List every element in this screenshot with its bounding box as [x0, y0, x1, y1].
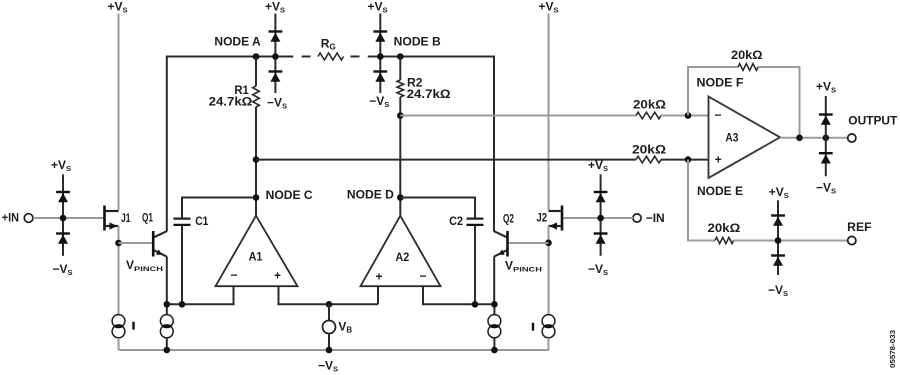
- 20k value label (feedback): [731, 48, 763, 62]
- diode D6 -VS to +IN: [56, 234, 70, 244]
- junction -IN clamp: [597, 215, 604, 222]
- svg-text:J2: J2: [537, 211, 548, 225]
- wire C2 bottom to A2 input rail: [474, 226, 476, 305]
- I label (right tail): [532, 323, 534, 331]
- node B label: [394, 34, 441, 48]
- resistor 20k (feedback): [738, 64, 758, 71]
- junction node D: [397, 194, 404, 201]
- supply -VS label (node A clamp): [267, 96, 287, 111]
- capacitor C2: [467, 219, 484, 225]
- VPINCH label (Q2): [505, 259, 542, 274]
- resistor R2 column wire upper: [399, 57, 401, 81]
- junction I2 at -VS rail: [164, 347, 171, 354]
- node D label: [347, 187, 394, 201]
- svg-text:NODE E: NODE E: [697, 184, 743, 198]
- supply +VS label (output clamp): [816, 80, 836, 95]
- wire node A horizontal run: [167, 57, 293, 232]
- +IN terminal label: [2, 211, 19, 225]
- OUTPUT terminal label: [848, 114, 898, 128]
- svg-text:−: −: [419, 269, 426, 283]
- voltage source VB: [323, 304, 336, 350]
- svg-text:REF: REF: [847, 220, 871, 234]
- svg-text:NODE B: NODE B: [394, 34, 441, 48]
- diode D5 +IN to +VS: [56, 192, 70, 202]
- resistor R1 column wire upper: [255, 57, 257, 87]
- junction I3 at -VS rail: [491, 347, 498, 354]
- node F label: [697, 76, 744, 90]
- transistor J2 (input JFET): [549, 206, 563, 231]
- node C label: [266, 188, 313, 202]
- svg-text:20kΩ: 20kΩ: [632, 142, 666, 156]
- terminal OUTPUT: [848, 134, 856, 142]
- svg-text:NODE C: NODE C: [266, 188, 313, 202]
- svg-text:C2: C2: [449, 214, 463, 228]
- op-amp A3: [709, 97, 781, 179]
- diode D9 output to +VS: [819, 115, 833, 125]
- resistor R2: [397, 80, 404, 97]
- svg-text:A3: A3: [725, 131, 738, 145]
- svg-text:+: +: [375, 270, 382, 284]
- junction Q2 emitter at rail: [491, 301, 498, 308]
- op-amp A1: [216, 216, 298, 287]
- svg-text:+: +: [274, 269, 281, 283]
- wire A1 inverting input stub: [167, 286, 234, 304]
- R1 value 24.7k label: [209, 95, 253, 109]
- junction output clamp: [823, 135, 830, 142]
- transistor J1 (input JFET): [105, 206, 119, 231]
- junction A3 noninverting input / ref divider: [685, 156, 692, 163]
- J2 label: [537, 211, 548, 225]
- junction node A clamp: [272, 53, 279, 60]
- resistor 20k (A3 noninverting input): [636, 156, 661, 163]
- transistor Q2: [494, 231, 508, 257]
- svg-text:J1: J1: [121, 211, 131, 225]
- junction J2 source / Q2 base: [545, 240, 552, 247]
- diode D3 node B to +VS: [373, 32, 387, 42]
- svg-text:OUTPUT: OUTPUT: [848, 114, 898, 128]
- svg-text:24.7kΩ: 24.7kΩ: [209, 95, 253, 109]
- wire C1 bottom to A1 input rail: [181, 226, 183, 305]
- svg-text:C1: C1: [195, 214, 208, 228]
- svg-text:Q2: Q2: [503, 212, 514, 226]
- VPINCH label (Q1): [126, 258, 163, 273]
- wire J1 tail to -VS rail: [118, 338, 120, 350]
- svg-text:Q1: Q1: [142, 211, 153, 225]
- resistor 20k (A3 inverting input): [636, 112, 661, 119]
- wire node A clamp string: [274, 14, 276, 94]
- wire Q2 emitter down: [493, 257, 495, 305]
- diode D12 -VS to REF: [771, 256, 785, 266]
- wire node C to C1: [182, 198, 255, 219]
- current source I3 (Q2 tail): [488, 304, 501, 350]
- wire ref resistor to REF terminal: [734, 240, 848, 242]
- REF terminal label: [847, 220, 871, 234]
- junction R2 tap to A3 negative input: [397, 112, 404, 119]
- svg-text:−: −: [714, 108, 721, 122]
- supply -VS label (output clamp): [816, 181, 836, 196]
- junction VB at bias rail: [326, 301, 333, 308]
- supply +VS label (-IN clamp): [588, 158, 608, 173]
- supply +VS label (REF clamp): [769, 185, 789, 200]
- svg-text:+: +: [715, 152, 722, 166]
- wire node B clamp string: [379, 14, 381, 94]
- wire 20k to A3 inverting input: [661, 115, 709, 117]
- junction C2 at rail: [472, 301, 479, 308]
- supply -VS label (REF clamp): [768, 283, 788, 298]
- C1 label: [195, 214, 208, 228]
- junction +IN clamp: [60, 215, 67, 222]
- transistor Q1: [153, 231, 167, 257]
- junction node B clamp: [377, 53, 384, 60]
- wire node D to C2: [401, 198, 475, 219]
- R2 label: [407, 75, 423, 89]
- wire A2 noninverting input stub: [377, 286, 379, 304]
- wire R2 tap to A3 inverting input: [400, 115, 636, 117]
- wire R1 to node C: [255, 107, 257, 216]
- svg-text:20kΩ: 20kΩ: [731, 48, 763, 62]
- current source I4 (J2 tail): [542, 315, 555, 338]
- wire RG gap dash left: [302, 56, 311, 58]
- svg-text:NODE A: NODE A: [214, 34, 261, 48]
- terminal REF: [848, 236, 856, 244]
- wire R1 tap to A3 noninverting input: [256, 159, 636, 161]
- wire A3 output: [780, 137, 848, 139]
- R1 label: [234, 83, 249, 97]
- junction REF clamp: [775, 237, 782, 244]
- R2 value 24.7k label: [407, 87, 451, 101]
- capacitor C1: [174, 219, 191, 225]
- wire -IN clamp string: [600, 174, 602, 255]
- svg-text:20kΩ: 20kΩ: [633, 97, 666, 111]
- diode D4 -VS to node B: [373, 72, 387, 82]
- wire +IN clamp string: [62, 174, 64, 255]
- supply -VS label (-IN clamp): [588, 262, 608, 277]
- junction node B: [397, 53, 404, 60]
- wire Q1 emitter down: [166, 257, 168, 305]
- svg-text:A2: A2: [395, 250, 409, 264]
- wire node B horizontal run: [368, 57, 494, 232]
- junction node A: [253, 53, 260, 60]
- -IN terminal label: [646, 211, 665, 225]
- terminal +IN: [24, 214, 33, 223]
- wire J1 source down: [118, 226, 120, 315]
- VB label: [338, 320, 352, 335]
- junction Q1 emitter at rail: [164, 301, 171, 308]
- wire 20k to A3 noninverting input: [661, 159, 709, 161]
- wire RG gap dash right: [351, 56, 360, 58]
- C2 label: [449, 214, 463, 228]
- supply +VS label (node A clamp): [265, 0, 285, 15]
- wire A2 inverting input stub: [423, 286, 495, 304]
- Q1 label: [142, 211, 153, 225]
- diode D2 -VS to node A: [269, 72, 283, 82]
- junction node C: [253, 194, 260, 201]
- supply -VS label (bottom rail): [318, 359, 338, 374]
- junction feedback at output: [796, 135, 803, 142]
- junction C1 at rail: [179, 301, 186, 308]
- Q2 label: [503, 212, 514, 226]
- diode D1 node A to +VS: [269, 32, 283, 42]
- svg-text:+IN: +IN: [2, 211, 19, 225]
- wire output clamp string: [825, 96, 827, 176]
- diode D10 -VS to output: [819, 153, 833, 163]
- RG value label: [321, 37, 336, 52]
- junction VB at -VS rail: [326, 347, 333, 354]
- svg-text:24.7kΩ: 24.7kΩ: [407, 87, 451, 101]
- current source I2 (Q1 tail): [160, 304, 173, 350]
- wire +IN to J1 gate: [33, 217, 104, 219]
- junction A3 inverting input / feedback: [685, 112, 692, 119]
- figure number (rotated): [890, 330, 897, 368]
- wire -VS bottom rail: [119, 349, 549, 351]
- supply +VS label (J1 drain): [108, 0, 128, 15]
- svg-text:20kΩ: 20kΩ: [708, 221, 741, 235]
- wire J2 source down: [548, 226, 550, 315]
- svg-text:A1: A1: [249, 250, 263, 264]
- junction R1 tap to A3 positive input: [253, 156, 260, 163]
- wire J2 tail to -VS rail: [548, 338, 550, 350]
- I label (left tail): [132, 322, 134, 330]
- resistor RG (external): [318, 53, 344, 60]
- 20k value label (noninverting input): [632, 142, 666, 156]
- node E label: [697, 184, 743, 198]
- supply +VS label (node B clamp): [368, 0, 388, 15]
- wire Q1 base: [119, 242, 153, 244]
- supply +VS label (J2 drain): [539, 0, 559, 15]
- wire J2 drain to +VS: [548, 14, 550, 211]
- junction J1 source / Q1 base: [115, 240, 122, 247]
- svg-text:NODE F: NODE F: [697, 76, 744, 90]
- wire feedback down to output: [758, 67, 800, 138]
- diode D11 REF to +VS: [771, 216, 785, 226]
- supply +VS label (+IN clamp): [51, 158, 71, 173]
- J1 label: [121, 211, 131, 225]
- op-amp A2: [361, 216, 441, 287]
- wire -IN to J2 gate: [563, 217, 633, 219]
- resistor 20k (reference): [715, 237, 734, 243]
- wire feedback up and across: [688, 67, 738, 116]
- wire REF clamp string: [777, 200, 779, 275]
- wire A1 noninverting input stub: [279, 286, 379, 304]
- svg-text:−: −: [230, 268, 237, 282]
- wire A3 noninverting input down to ref resistor: [688, 160, 715, 241]
- svg-text:05578-033: 05578-033: [890, 330, 897, 368]
- wire J1 drain to +VS: [118, 14, 120, 211]
- resistor R1: [253, 86, 260, 107]
- node A label: [214, 34, 261, 48]
- wire Q2 base: [509, 242, 549, 244]
- diode D8 -VS to -IN: [594, 234, 608, 244]
- diode D7 -IN to +VS: [594, 192, 608, 202]
- supply -VS label (node B clamp): [369, 94, 389, 109]
- 20k value label (inverting input): [633, 97, 666, 111]
- terminal -IN: [633, 214, 641, 222]
- current source I1 (J1 tail): [112, 315, 125, 338]
- 20k value label (reference): [708, 221, 741, 235]
- svg-text:−IN: −IN: [646, 211, 665, 225]
- supply -VS label (+IN clamp): [53, 262, 73, 277]
- wire R2 to node D: [399, 97, 401, 216]
- svg-text:NODE D: NODE D: [347, 187, 394, 201]
